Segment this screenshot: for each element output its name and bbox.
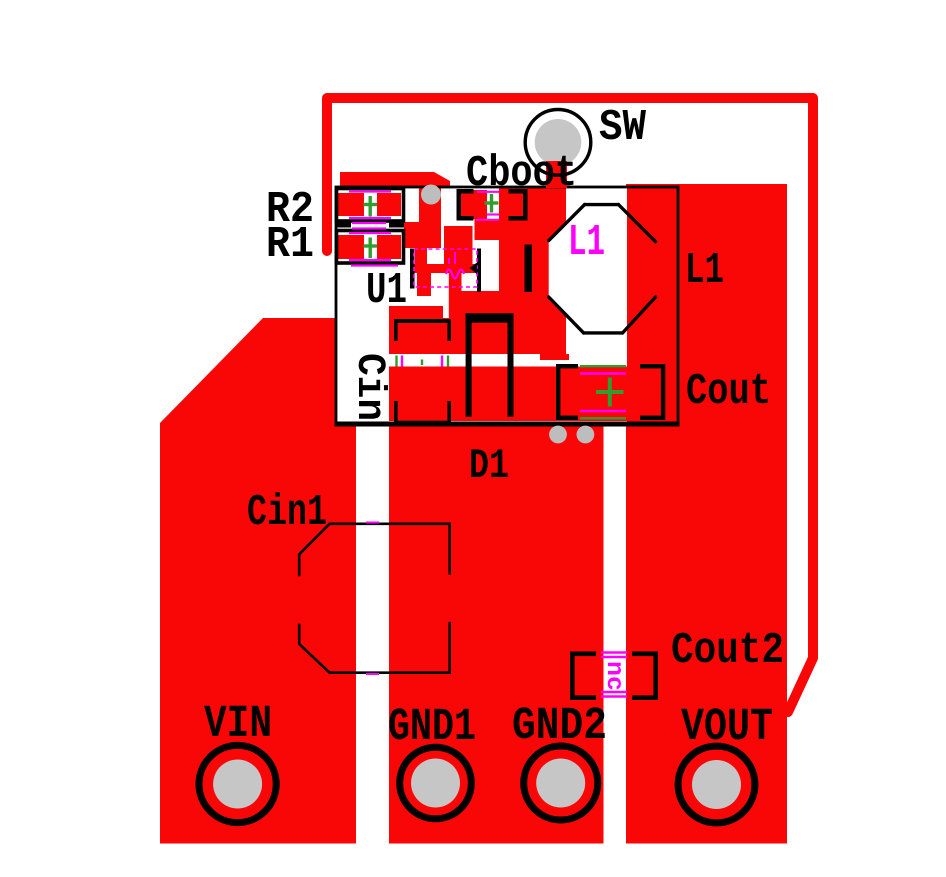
transistor U1 black side bars (410, 249, 415, 289)
via dots below Cout (549, 426, 567, 444)
inductor L1 interior white left of strip (549, 223, 566, 314)
svg-text:GND1: GND1 (388, 701, 476, 753)
wire R pads to via (404, 222, 441, 248)
pad GND2 (524, 746, 598, 820)
capacitor Cin1 magenta ticks (366, 523, 379, 675)
inductor L1 octagon outline (549, 205, 656, 333)
resistor R2 R1 magenta pad lines (349, 192, 398, 266)
node copper fill right of strip inside box (627, 188, 678, 423)
capacitor Cout2 brackets (570, 652, 658, 701)
svg-text:Cout: Cout (686, 367, 771, 417)
svg-text:VIN: VIN (204, 698, 272, 750)
resistor R2 green cross (364, 196, 378, 217)
capacitor Cout bracket outline (556, 364, 665, 420)
capacitor Cin gap ticks green magenta (397, 356, 449, 367)
transistor U1 pin traces top (415, 230, 427, 265)
svg-text:SW: SW (599, 103, 647, 153)
transistor U1 magenta squiggle (446, 270, 464, 279)
capacitor Cboot magenta lines (476, 192, 499, 220)
capacitor Cin1 outline (299, 524, 450, 673)
svg-text:nc: nc (600, 661, 627, 691)
resistor R2 pads (338, 193, 364, 216)
wire Cboot pad stub down (475, 219, 500, 240)
svg-text:R1: R1 (266, 220, 314, 270)
inductor L1 black bar pad mark (525, 245, 533, 293)
capacitor Cout green and magenta lines (580, 366, 626, 418)
pad VIN (199, 745, 276, 822)
node copper fill lower box left part (389, 318, 566, 354)
svg-text:D1: D1 (469, 442, 509, 490)
node GND copper pour (389, 421, 604, 844)
pad GND1 (400, 747, 472, 819)
diode D1 thick square outline (466, 313, 514, 417)
node VIN copper pour (160, 318, 356, 844)
node copper fill lower box below gap (389, 367, 627, 422)
svg-text:Cboot: Cboot (466, 149, 577, 199)
node VOUT copper pour (626, 184, 787, 844)
resistor R1 green cross (364, 238, 378, 259)
component box outline U1 courtyard (336, 187, 678, 423)
transistor U1 horizontal trace (414, 264, 477, 273)
resistor R2 outline (337, 189, 404, 222)
svg-text:Cin: Cin (346, 353, 391, 421)
resistor R1 pads (338, 235, 364, 259)
pad VOUT (678, 746, 755, 823)
svg-text:L1: L1 (685, 246, 724, 296)
svg-text:L1: L1 (568, 218, 605, 268)
capacitor Cboot green cross (485, 194, 499, 213)
wire bridge below U1 (461, 291, 499, 318)
transistor U1 pin1 arrow (470, 263, 478, 275)
capacitor Cin bracket outline (394, 319, 451, 425)
resistor R1 R2 divider stubs (336, 223, 351, 228)
node SW pad trace stub (546, 161, 567, 188)
wire via trace down (419, 188, 441, 248)
pad SW circle (525, 110, 591, 176)
node center copper block under Cboot and SW (499, 188, 566, 354)
svg-text:Cout2: Cout2 (671, 626, 784, 676)
capacitor Cboot bracket outline (457, 189, 528, 221)
via top gray (421, 185, 441, 205)
component box bottom edge thick (335, 422, 680, 427)
capacitor Cboot left pad (459, 190, 487, 219)
wire top loop trace SW net (327, 98, 813, 712)
svg-text:GND2: GND2 (512, 700, 607, 752)
svg-text:U1: U1 (366, 266, 407, 316)
svg-text:Cin1: Cin1 (247, 488, 327, 538)
resistor R1 outline (337, 231, 404, 264)
component box interior background (336, 188, 678, 423)
capacitor Cout2 magenta footprint (601, 653, 627, 697)
capacitor Cout green cross (596, 378, 624, 407)
svg-text:VOUT: VOUT (681, 701, 773, 753)
pad SW ring (525, 110, 591, 176)
transistor U1 pin traces bottom (417, 273, 431, 296)
transistor U1 magenta dashed body (414, 249, 477, 287)
wire pour above U1 box (340, 172, 450, 188)
